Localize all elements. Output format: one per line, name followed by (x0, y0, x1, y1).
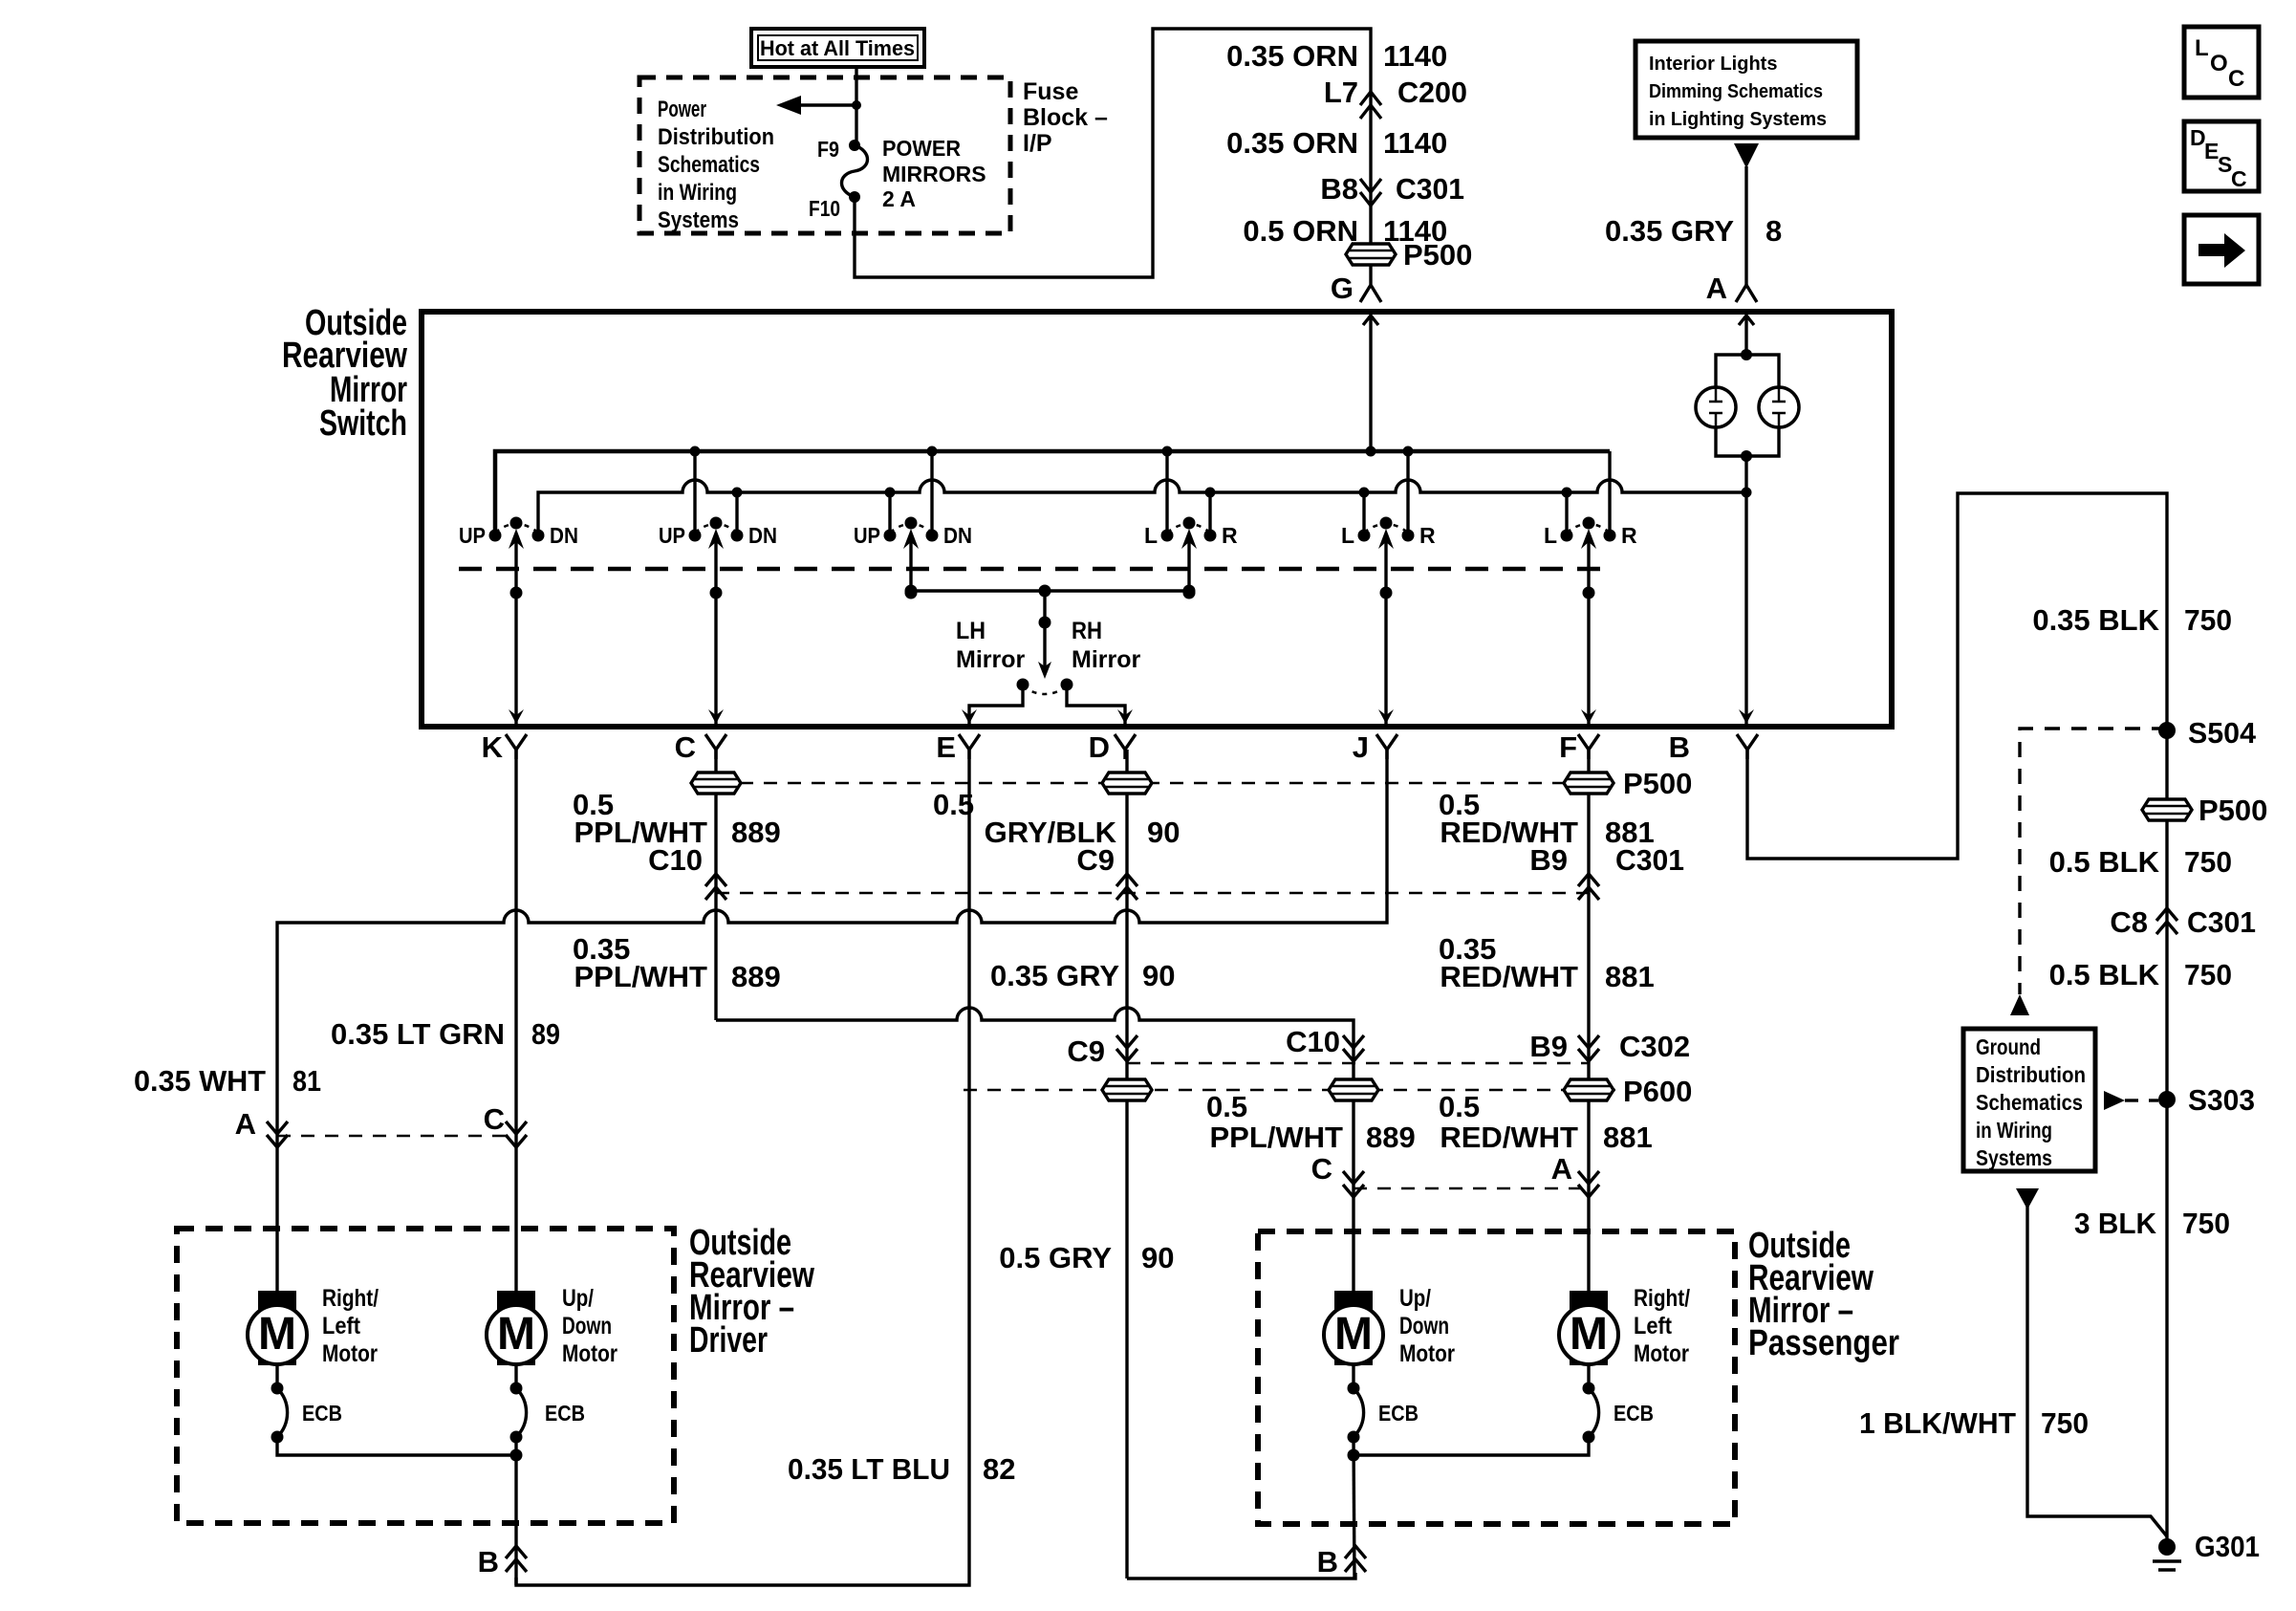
svg-text:DN: DN (943, 523, 972, 548)
mechanical linkage dashed line (459, 567, 1606, 572)
wire 0.35 LT BLU 82 (E to driver B) (516, 750, 969, 1585)
svg-text:DN: DN (550, 523, 578, 548)
svg-text:Passenger: Passenger (1748, 1323, 1899, 1363)
grommet P500 (1345, 238, 1472, 279)
ground G301 (2158, 1538, 2176, 1556)
splice S303 with arrow from box (2104, 1091, 2125, 1110)
svg-text:0.5 GRY: 0.5 GRY (999, 1241, 1112, 1274)
svg-text:Distribution: Distribution (658, 124, 774, 150)
wire 0.35 GRY 90 (D middle) (990, 959, 1175, 992)
svg-text:RH: RH (1072, 618, 1102, 644)
svg-text:in Lighting Systems: in Lighting Systems (1649, 109, 1827, 130)
wire 0.35 LT GRN 89 (K to driver up/down motor) (514, 750, 517, 1291)
svg-text:C302: C302 (1619, 1030, 1690, 1063)
svg-text:0.5 BLK: 0.5 BLK (2049, 958, 2160, 991)
svg-text:Block –: Block – (1023, 104, 1108, 131)
wire motor to ECB (275, 1365, 278, 1388)
Ground Distribution Schematics box (1963, 1029, 2095, 1171)
wire SW6 wiper to F (1587, 593, 1590, 724)
lamp pair (switch illumination) (1696, 349, 1799, 462)
svg-text:3 BLK: 3 BLK (2074, 1207, 2157, 1240)
wire fuse to G column (855, 29, 1371, 277)
svg-text:Right/: Right/ (322, 1285, 379, 1312)
svg-text:Right/: Right/ (1634, 1285, 1690, 1312)
connector B8 C301 (1320, 172, 1464, 244)
svg-text:Ground: Ground (1976, 1034, 2041, 1059)
Outside Rearview Mirror Passenger dashed box (1258, 1231, 1735, 1524)
motor driver right/left (248, 1285, 379, 1367)
circuit breaker ECB passenger right/left (1583, 1382, 1655, 1444)
svg-text:LH: LH (956, 618, 986, 644)
motor passenger right/left (1559, 1285, 1690, 1367)
svg-text:A: A (1706, 272, 1727, 305)
connector row C302 dashed (1127, 1062, 1589, 1065)
connector L7 C200 (1324, 76, 1467, 177)
svg-text:L: L (1544, 523, 1557, 548)
svg-text:82: 82 (983, 1452, 1015, 1486)
switch SW2 up/down (659, 517, 777, 599)
svg-text:P500: P500 (1403, 238, 1472, 272)
connector B9 C301 chevrons up on F (1529, 843, 1684, 877)
wire 0.5 BLK 750 (2049, 845, 2232, 879)
svg-text:B: B (1317, 1545, 1338, 1578)
svg-text:C: C (2228, 66, 2244, 92)
svg-text:G: G (1331, 272, 1354, 305)
fuse F9/F10 POWER MIRRORS 2A (809, 136, 986, 221)
connector row C301 dashed (716, 892, 1589, 895)
Fuse Block - I/P dashed box (639, 77, 1010, 233)
wire mirror-select collector (905, 585, 1196, 598)
wire busA to switch contacts (693, 451, 696, 535)
svg-text:E: E (936, 730, 956, 764)
switch SW3 up/down (854, 517, 972, 599)
wire 0.35 WHT 81 (J to driver right/left motor) (277, 750, 1387, 1291)
circuit breaker ECB driver right/left (271, 1382, 343, 1444)
wire 0.5 ORN 1140 label (1243, 214, 1447, 248)
svg-text:M: M (258, 1309, 296, 1360)
node busA junctions (690, 446, 1414, 457)
svg-text:P500: P500 (2199, 794, 2267, 827)
svg-text:889: 889 (731, 816, 781, 849)
wire 0.5 RED/WHT 881 (F down) (1587, 750, 1590, 1291)
svg-text:PPL/WHT: PPL/WHT (1210, 1121, 1344, 1154)
svg-text:ECB: ECB (1378, 1401, 1419, 1426)
wire 0.5 PPL/WHT 889 (C down) (714, 750, 717, 1020)
svg-text:Power: Power (658, 97, 706, 122)
svg-text:Mirror: Mirror (1072, 646, 1141, 673)
svg-text:A: A (235, 1107, 256, 1141)
Outside Rearview Mirror Driver dashed box (177, 1229, 674, 1523)
LOC icon (2184, 27, 2259, 98)
svg-text:UP: UP (659, 523, 685, 548)
svg-text:Mirror: Mirror (956, 646, 1026, 673)
connector row driver mirror dashed (277, 1135, 516, 1138)
wire S504 to P500 (2165, 730, 2168, 1547)
wire bus A (battery feed inside switch) (495, 451, 1610, 535)
wire 0.35 ORN 1140 label (1226, 126, 1447, 160)
svg-text:C301: C301 (2187, 905, 2256, 939)
wire 0.35 RED/WHT 881 (1439, 932, 1655, 993)
svg-text:0.5 ORN: 0.5 ORN (1243, 214, 1358, 248)
svg-text:C: C (484, 1102, 505, 1136)
wire lamps to B terminal (1744, 456, 1747, 724)
wire SW5 wiper to J (1384, 593, 1387, 724)
svg-text:C: C (2231, 166, 2247, 191)
Power Distribution Schematics label (658, 97, 774, 233)
LH Mirror label (956, 618, 1026, 673)
terminal F (1559, 730, 1599, 764)
svg-text:M: M (1570, 1309, 1608, 1360)
svg-text:Left: Left (1634, 1313, 1673, 1339)
svg-text:PPL/WHT: PPL/WHT (574, 960, 708, 993)
svg-text:1 BLK/WHT: 1 BLK/WHT (1859, 1406, 2016, 1440)
Outside Rearview Mirror Switch box (422, 312, 1892, 727)
svg-text:L7: L7 (1324, 76, 1358, 109)
wire SW1 wiper to K (514, 593, 517, 724)
svg-text:81: 81 (292, 1064, 321, 1098)
svg-text:RED/WHT: RED/WHT (1440, 1121, 1578, 1154)
wire 0.35 BLK 750 (B to ground chain) (1747, 493, 2167, 859)
terminal J (1353, 730, 1397, 764)
circuit breaker ECB passenger up/down (1348, 1382, 1419, 1444)
svg-text:0.35 ORN: 0.35 ORN (1226, 39, 1358, 73)
svg-text:Left: Left (322, 1313, 361, 1339)
svg-text:0.5: 0.5 (933, 788, 974, 821)
wire bus B inside switch (538, 480, 1746, 535)
svg-text:0.35 BLK: 0.35 BLK (2032, 603, 2159, 637)
motor driver up/down (487, 1285, 617, 1367)
svg-text:UP: UP (854, 523, 880, 548)
svg-text:I/P: I/P (1023, 130, 1052, 157)
svg-text:F9: F9 (817, 137, 839, 162)
svg-text:C9: C9 (1076, 843, 1115, 877)
svg-text:881: 881 (1605, 960, 1655, 993)
svg-text:Down: Down (1399, 1313, 1449, 1339)
svg-text:0.35 GRY: 0.35 GRY (990, 959, 1119, 992)
svg-text:R: R (1222, 523, 1238, 548)
svg-text:0.35 ORN: 0.35 ORN (1226, 126, 1358, 160)
svg-text:750: 750 (2184, 845, 2232, 879)
svg-text:B: B (1669, 730, 1690, 764)
svg-text:R: R (1419, 523, 1436, 548)
svg-text:1140: 1140 (1383, 39, 1447, 73)
svg-text:in Wiring: in Wiring (658, 180, 737, 206)
terminal A (1706, 272, 1757, 305)
Outside Rearview Mirror Driver label (689, 1223, 814, 1361)
svg-text:889: 889 (731, 960, 781, 993)
arrow under box (1734, 143, 1759, 168)
connector C9 chevrons up on D (1116, 874, 1137, 900)
svg-text:90: 90 (1141, 1241, 1174, 1274)
svg-text:M: M (1334, 1309, 1373, 1360)
terminal G (1331, 272, 1381, 305)
svg-text:Schematics: Schematics (658, 152, 760, 178)
Hot at All Times box (751, 29, 924, 67)
wire 0.5 GRY 90 (D to passenger B) (999, 1241, 1174, 1274)
svg-text:F: F (1559, 730, 1577, 764)
svg-text:0.5: 0.5 (1206, 1090, 1247, 1123)
svg-text:889: 889 (1366, 1121, 1416, 1154)
svg-text:750: 750 (2184, 603, 2232, 637)
RH Mirror label (1072, 618, 1141, 673)
terminal arrows at box bottom (509, 709, 524, 724)
wire 0.5 BLK 750 lower (2049, 958, 2232, 991)
svg-text:C8: C8 (2110, 905, 2148, 939)
svg-text:Up/: Up/ (562, 1285, 594, 1312)
svg-text:1140: 1140 (1383, 126, 1447, 160)
svg-text:RED/WHT: RED/WHT (1440, 960, 1578, 993)
svg-text:D: D (1089, 730, 1110, 764)
wire 0.5 RED/WHT 881 to passenger A (1439, 1090, 1653, 1154)
svg-text:G301: G301 (2195, 1530, 2260, 1563)
connector C10/C301 chevrons (705, 874, 726, 900)
wire busB to switch contacts (735, 492, 738, 535)
Outside Rearview Mirror Switch label (282, 303, 407, 444)
svg-text:Hot at All Times: Hot at All Times (760, 36, 915, 60)
motor passenger up/down (1324, 1285, 1455, 1367)
switch LH/RH mirror selector (1017, 591, 1073, 694)
svg-text:ECB: ECB (1614, 1401, 1654, 1426)
svg-text:C10: C10 (648, 843, 703, 877)
svg-text:0.35 WHT: 0.35 WHT (134, 1064, 266, 1098)
switch SW5 left/right (1341, 517, 1436, 599)
svg-text:2 A: 2 A (882, 186, 916, 211)
svg-text:C301: C301 (1396, 172, 1464, 206)
svg-text:C200: C200 (1397, 76, 1467, 109)
svg-text:MIRRORS: MIRRORS (882, 162, 986, 186)
wire motor to ECB (1352, 1365, 1354, 1388)
svg-text:R: R (1621, 523, 1637, 548)
terminal C (675, 730, 726, 764)
svg-text:Switch: Switch (319, 403, 407, 444)
Fuse Block label (1023, 78, 1108, 157)
terminal B (1669, 730, 1758, 764)
svg-text:0.5: 0.5 (1439, 1090, 1480, 1123)
wire from Hot at All Times down (855, 67, 857, 145)
svg-text:90: 90 (1147, 816, 1180, 849)
wire 0.5 PPL/WHT 889 to passenger C (1352, 1099, 1354, 1291)
svg-text:0.35 GRY: 0.35 GRY (1605, 214, 1734, 248)
svg-text:P500: P500 (1623, 767, 1692, 800)
Interior Lights Dimming box (1635, 41, 1857, 138)
wire ECBs common to B (1354, 1437, 1589, 1455)
svg-text:Systems: Systems (658, 207, 739, 233)
grommet P500 right (2141, 798, 2193, 821)
wire A terminal to lamps (1739, 316, 1754, 355)
wire selector to D (1067, 690, 1125, 724)
connector B9 C302 chevrons down on F (1529, 1030, 1690, 1063)
svg-text:Fuse: Fuse (1023, 78, 1078, 105)
svg-text:B8: B8 (1320, 172, 1358, 206)
wire selector to E (969, 690, 1023, 724)
svg-text:C: C (1311, 1152, 1332, 1186)
connector C8 C301 (2110, 905, 2256, 939)
svg-text:C301: C301 (1615, 843, 1684, 877)
wire ECBs common to B (277, 1437, 516, 1455)
terminal D (1089, 730, 1136, 764)
svg-text:L: L (2195, 35, 2209, 61)
wire 0.35 ORN 1140 label (1226, 39, 1447, 73)
svg-text:0.35 LT GRN: 0.35 LT GRN (331, 1017, 505, 1051)
svg-text:B9: B9 (1529, 843, 1568, 877)
svg-text:K: K (482, 730, 504, 764)
svg-text:881: 881 (1603, 1121, 1653, 1154)
svg-text:S303: S303 (2188, 1083, 2255, 1117)
svg-text:F10: F10 (809, 196, 840, 221)
svg-text:M: M (497, 1309, 535, 1360)
svg-text:90: 90 (1142, 959, 1175, 992)
terminal K (482, 730, 527, 764)
wire 3 BLK 750 (2074, 1207, 2230, 1240)
svg-text:Motor: Motor (1399, 1340, 1455, 1367)
wire SW2 wiper to C (714, 593, 717, 724)
switch SW6 left/right (1544, 517, 1637, 599)
svg-text:Up/: Up/ (1399, 1285, 1431, 1312)
svg-text:C9: C9 (1067, 1034, 1105, 1068)
arrow icon (2184, 215, 2259, 284)
splice S504 (2158, 722, 2176, 739)
svg-text:0.5 BLK: 0.5 BLK (2049, 845, 2160, 879)
wire 1 BLK/WHT 750 from ground box (2016, 1188, 2039, 1209)
svg-text:750: 750 (2041, 1406, 2089, 1440)
svg-text:ECB: ECB (302, 1401, 342, 1426)
connector row P500 dashed (716, 782, 1615, 785)
svg-text:S504: S504 (2188, 716, 2257, 750)
svg-text:Motor: Motor (1634, 1340, 1689, 1367)
svg-text:B9: B9 (1529, 1030, 1568, 1063)
wire G terminal to busA (1363, 316, 1378, 451)
connector row passenger mirror dashed (1354, 1187, 1589, 1190)
terminal E (936, 730, 980, 764)
svg-text:J: J (1353, 730, 1369, 764)
svg-text:DN: DN (748, 523, 777, 548)
wire 0.5 GRY/BLK 90 (D down) (1125, 750, 1128, 1578)
svg-text:C10: C10 (1286, 1025, 1340, 1058)
svg-text:Schematics: Schematics (1976, 1090, 2083, 1115)
wire 0.35 PPL/WHT 889 (C column to passenger) (573, 932, 781, 993)
svg-text:Motor: Motor (322, 1340, 378, 1367)
svg-text:0.35 LT BLU: 0.35 LT BLU (788, 1452, 950, 1486)
svg-text:89: 89 (531, 1017, 560, 1051)
DESC icon (2184, 121, 2259, 191)
svg-text:O: O (2210, 51, 2228, 76)
svg-text:in Wiring: in Wiring (1976, 1118, 2052, 1143)
arrow to power distribution (776, 96, 861, 115)
svg-text:UP: UP (459, 523, 486, 548)
svg-text:Down: Down (562, 1313, 612, 1339)
svg-text:L: L (1341, 523, 1354, 548)
svg-text:A: A (1551, 1152, 1572, 1186)
dashed wire S504 to ground distribution (2020, 729, 2167, 994)
svg-text:Driver: Driver (689, 1320, 768, 1361)
svg-text:750: 750 (2182, 1207, 2230, 1240)
circuit breaker ECB driver up/down (510, 1382, 586, 1444)
Outside Rearview Mirror Passenger label (1748, 1226, 1899, 1363)
svg-text:P600: P600 (1623, 1075, 1692, 1108)
svg-text:750: 750 (2184, 958, 2232, 991)
switch SW1 driver up/down (459, 517, 578, 599)
svg-text:Interior Lights: Interior Lights (1649, 54, 1777, 75)
svg-text:L: L (1144, 523, 1158, 548)
connector row P600 dashed (964, 1089, 1615, 1092)
svg-text:Systems: Systems (1976, 1145, 2052, 1170)
svg-text:8: 8 (1765, 214, 1782, 248)
svg-text:Dimming Schematics: Dimming Schematics (1649, 81, 1823, 102)
svg-text:Motor: Motor (562, 1340, 617, 1367)
switch SW4 left/right (1144, 517, 1238, 599)
svg-text:B: B (478, 1545, 499, 1578)
wire 0.35 GRY 8 (1744, 166, 1747, 285)
svg-text:POWER: POWER (882, 136, 961, 161)
svg-text:C: C (675, 730, 696, 764)
svg-text:ECB: ECB (545, 1401, 585, 1426)
svg-text:Distribution: Distribution (1976, 1062, 2086, 1087)
